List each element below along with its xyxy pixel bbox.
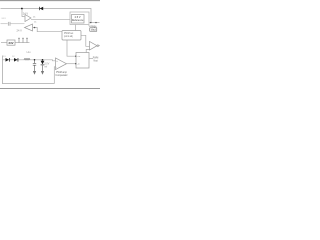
svg-text:Comparator: Comparator: [55, 74, 67, 77]
svg-text:Reference: Reference: [72, 19, 84, 22]
svg-text:24 V: 24 V: [17, 28, 23, 32]
svg-text:Vout: Vout: [93, 60, 98, 63]
svg-text:-: -: [56, 66, 57, 69]
svg-text:5.0V: 5.0V: [45, 64, 50, 66]
svg-text:point adj: point adj: [64, 35, 73, 38]
svg-text:ref: ref: [45, 65, 48, 68]
svg-text:24 V: 24 V: [23, 11, 29, 15]
svg-text:PWM amp: PWM amp: [56, 72, 67, 74]
svg-text:24V: 24V: [9, 41, 14, 45]
svg-text:PWM: PWM: [93, 57, 99, 59]
svg-text:24 V: 24 V: [2, 18, 7, 20]
svg-text:Vout: Vout: [91, 29, 96, 32]
svg-text:PWM set: PWM set: [64, 32, 74, 35]
